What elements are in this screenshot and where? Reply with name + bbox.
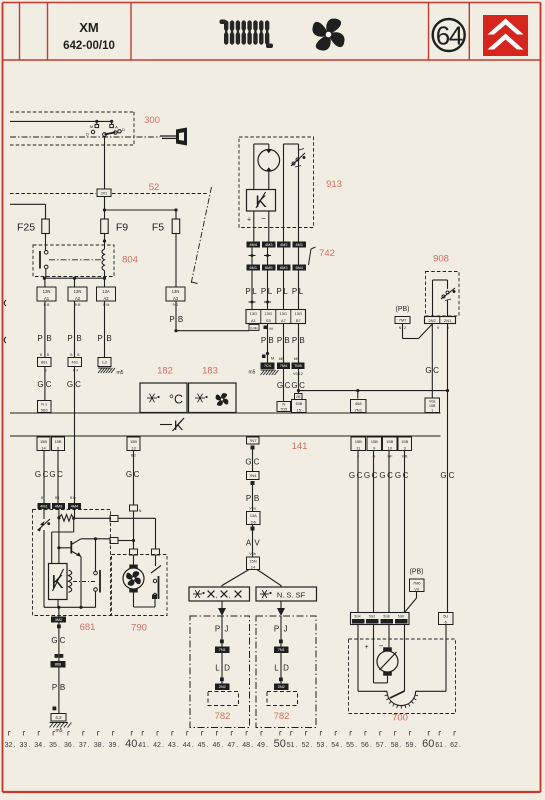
svg-text:F5: F5 [152,222,164,234]
connector 7N7 [247,437,260,444]
svg-text:+: + [364,644,368,651]
svg-text:(PB): (PB) [396,306,410,313]
wire 4M2 to ground [58,623,60,714]
svg-text:.: . [28,742,30,749]
svg-text:C: C [403,471,409,480]
ground connector 12G [98,358,111,367]
svg-text:Rd: Rd [55,496,59,500]
svg-text:201: 201 [101,190,108,195]
svg-text:A7: A7 [281,318,287,323]
connector 868 [51,661,66,668]
wire 861 to 5B3 [44,367,46,401]
svg-text:4M4: 4M4 [250,243,257,247]
connector 7N1 right [274,647,289,654]
svg-text:M: M [271,356,274,361]
svg-text:C: C [46,380,52,389]
svg-text:(PB): (PB) [410,569,424,576]
svg-text:642-00/10: 642-00/10 [63,40,115,52]
fan icon header [305,11,352,58]
svg-text:J: J [225,625,229,634]
connector 742 row 2 [247,265,261,271]
svg-text:G: G [51,636,57,645]
svg-text:.: . [88,742,90,749]
svg-text:908: 908 [433,254,449,265]
svg-text:L: L [274,664,279,673]
svg-text:D: D [283,664,289,673]
svg-text:42: 42 [153,742,161,749]
svg-text:7M4: 7M4 [280,364,287,368]
svg-text:D: D [122,127,125,132]
svg-text:−: − [261,214,266,223]
connector 4M4 [68,503,81,509]
wire 7N4 down [252,485,254,512]
svg-text:55: 55 [346,742,354,749]
svg-text:15: 15 [297,407,302,412]
ignition key [160,135,176,137]
svg-text:700: 700 [392,713,408,724]
connector 5B3 on harness K [38,401,52,413]
svg-text:A2: A2 [103,296,109,301]
svg-text:F9: F9 [116,222,128,234]
rheostat right wire [416,690,446,692]
connector 2N2 right [274,684,289,691]
svg-text:C: C [299,381,305,390]
wire 13N A3 to fan control [175,301,177,331]
connector 861 [38,358,52,367]
svg-text:P: P [97,334,102,343]
relay 804 coil [102,249,105,271]
connector 7M6 V0 [410,579,425,592]
svg-text:B7: B7 [296,318,302,323]
svg-text:60: 60 [422,738,434,750]
rheostat comb [416,690,419,692]
svg-text:2N2: 2N2 [278,685,285,689]
svg-text:15B: 15B [355,439,362,444]
svg-text:B: B [70,353,72,357]
switch wiper bar [105,132,116,134]
ground m5 bottom [50,723,54,728]
emitter wire down [80,557,82,608]
svg-text:.: . [340,742,342,749]
motor 913 [258,150,280,172]
wire 7N7 down [252,450,254,472]
svg-text:33: 33 [19,742,27,749]
fanout wires to relay boxes [222,570,249,588]
svg-text:2N2: 2N2 [428,318,436,323]
driver unit K 681 [49,564,68,600]
svg-text:913: 913 [326,179,342,190]
wire 782 left [221,616,223,684]
wire 782 right [280,616,282,684]
svg-text:2N1: 2N1 [444,318,452,323]
wire pin1 to switch connector [118,517,156,519]
svg-text:41: 41 [138,742,146,749]
svg-text:35: 35 [49,742,57,749]
svg-text:40: 40 [125,738,137,750]
wire column A1 [44,301,46,358]
svg-text:C: C [387,471,393,480]
connector 4M1 [38,503,51,509]
svg-text:.: . [370,742,372,749]
boundary 52 diagonal [191,187,212,284]
relay 804 link [49,259,102,261]
svg-text:13N: 13N [43,289,51,294]
svg-text:7M7: 7M7 [399,318,408,323]
svg-text:61: 61 [435,742,443,749]
inline connector switch [152,549,160,555]
resistor 681 [59,515,74,522]
svg-text:48: 48 [242,742,250,749]
svg-text:868: 868 [55,663,61,667]
svg-text:.: . [103,742,105,749]
svg-text:46: 46 [213,742,221,749]
svg-text:C: C [43,470,49,479]
svg-text:4M3: 4M3 [55,504,62,508]
connector 15B 9 [367,437,382,451]
182 snowflake [147,397,157,399]
svg-text:P: P [276,287,281,296]
svg-text:V: V [254,539,260,548]
svg-text:M: M [269,326,272,331]
svg-text:7N1: 7N1 [219,648,226,652]
svg-text:6M3: 6M3 [280,266,287,270]
svg-text:A1: A1 [251,318,257,323]
svg-text:R 4: R 4 [73,369,78,373]
svg-text:15B: 15B [371,439,378,444]
wire resistor to pin1 [74,517,110,519]
svg-text:468: 468 [355,401,362,406]
svg-text:P: P [277,336,282,345]
svg-text:4M2: 4M2 [280,243,287,247]
connector 468 7N1 [351,400,367,413]
svg-text:9: 9 [437,326,439,330]
svg-text:.: . [162,742,164,749]
connector row 700 [351,613,410,625]
svg-text:m5: m5 [117,370,124,376]
svg-text:G: G [379,471,385,480]
connector 742 row 1 [247,242,261,248]
svg-text:39: 39 [109,742,117,749]
relay contact wire down [95,591,97,607]
svg-text:6M4: 6M4 [296,266,303,270]
svg-text:5G4: 5G4 [354,614,360,618]
connector 15B 8 [52,437,65,451]
svg-text:7N7: 7N7 [249,438,257,443]
mechanical link to key [10,136,160,138]
svg-text:G: G [291,381,297,390]
collector wire to pin2 [81,538,110,540]
svg-text:13G: 13G [250,311,258,316]
svg-text:13G: 13G [265,311,273,316]
svg-text:L: L [283,287,288,296]
wire 2N1 down to resistor 700 [447,324,449,613]
svg-text:59: 59 [406,742,414,749]
wire pin2 to motor wire [118,540,134,542]
wire 5U6 top [447,612,449,614]
svg-text:C: C [75,380,81,389]
svg-text:B: B [76,334,81,343]
relay coil 681 [69,570,72,592]
wire 7M6 diagonal [416,592,418,599]
svg-text:45: 45 [198,742,206,749]
radiator icon [220,20,274,49]
svg-text:B: B [77,353,79,357]
wire 461 through harness to 4M4 [74,367,76,504]
svg-text:C: C [357,471,363,480]
svg-text:44: 44 [183,742,191,749]
fuse rail wire [105,209,177,211]
svg-text:.: . [459,742,461,749]
svg-text:52: 52 [149,182,160,193]
svg-text:C: C [285,381,291,390]
wire column A2 [74,301,76,358]
splice 742 b [264,255,271,257]
svg-text:.: . [355,742,357,749]
svg-text:m5: m5 [249,370,256,376]
svg-text:15B: 15B [401,439,408,444]
ignition switch 300 dashed box [10,111,134,113]
svg-text:,: , [229,593,231,600]
K 681 bottom wire [57,600,59,608]
svg-text:L: L [268,287,273,296]
svg-text:1,2: 1,2 [102,360,108,365]
svg-text:50: 50 [274,738,286,750]
svg-text:C: C [449,471,455,480]
connector 7M7 [395,317,410,324]
connector 7M4 [277,363,290,370]
relay 804 contact [39,251,41,269]
signal wire to 908 drop [299,390,448,392]
svg-text:782: 782 [274,711,290,722]
wire 7M7 to 2N2 [402,324,404,339]
svg-text:B: B [299,336,304,345]
splice 742 a [249,255,256,257]
connector G Mv [249,325,259,331]
harness K upper line [10,412,441,414]
183 snowflake [195,397,205,399]
svg-text:4M4: 4M4 [71,504,78,508]
svg-text:C: C [433,366,439,375]
svg-text:,: , [216,593,218,600]
inline connector motor [130,549,138,555]
svg-text:681: 681 [80,622,96,633]
connector 2N2 2N1 [425,317,456,324]
wires K913 down [253,211,255,242]
fuse F5 [172,219,180,234]
arrow wire left 782 [221,601,223,608]
svg-text:6E: 6E [294,357,299,361]
svg-text:A1: A1 [44,296,50,301]
node 2M [264,326,268,330]
svg-text:13G: 13G [280,311,288,316]
svg-text:7D5: 7D5 [280,407,287,411]
svg-text:B1a: B1a [70,496,76,500]
wire to G Mv box [176,330,249,332]
wire 13A D6 down [252,525,254,527]
connector V0a 15B 1 [425,398,440,413]
svg-text:V0 12: V0 12 [293,372,303,376]
designation box left [189,587,250,601]
svg-text:N: N [139,509,142,513]
svg-text:14: 14 [251,564,256,569]
svg-text:.: . [147,742,149,749]
svg-text:+: + [247,217,251,224]
connector 4M2 [51,617,66,623]
pin 681 to 790 upper [110,516,118,522]
svg-text:G: G [49,470,55,479]
wires 141 row down to 700 [357,451,359,613]
fan unit 790 dashed box [112,555,168,616]
connector N 7D5 [277,402,291,412]
inline connector a [130,505,138,511]
svg-text:G: G [35,470,41,479]
socket dashed left [208,692,239,706]
relay 804 dashed box [33,245,114,277]
wiper 700 [404,625,406,692]
svg-text:300: 300 [144,115,160,126]
svg-text:G: G [277,381,283,390]
svg-text:2N2: 2N2 [219,685,226,689]
wire motor loop [268,144,270,149]
svg-text:B: B [46,334,51,343]
feed wire to F25 [10,203,46,205]
svg-text:B·B: B·B [75,303,81,307]
svg-text:D: D [86,132,89,137]
svg-text:C: C [57,470,63,479]
svg-text:2: 2 [404,326,406,330]
svg-text:15B: 15B [295,401,302,406]
svg-text:G: G [425,366,431,375]
connector 13N A2 [68,287,87,301]
wire 13G S3 to ground 7C4 [267,324,269,363]
svg-text:38: 38 [94,742,102,749]
svg-text:.: . [400,742,402,749]
motor 790 bottom wire [133,593,135,608]
svg-text:52: 52 [302,742,310,749]
svg-text:°C: °C [169,393,183,407]
svg-text:V0: V0 [414,586,420,591]
svg-text:G: G [126,470,132,479]
connector 7N4 [247,472,260,480]
svg-text:.: . [414,742,416,749]
svg-text:B: B [40,353,42,357]
svg-text:F25: F25 [17,222,35,234]
supply wire into switch [10,120,112,122]
boundary 52 dashed line [10,193,96,195]
loop resistor to K input [73,518,75,532]
svg-text:G: G [349,471,355,480]
wire from 201 to fuse rail [104,197,106,220]
svg-text:58: 58 [391,742,399,749]
svg-text:G: G [37,380,43,389]
svg-text:13: 13 [131,445,136,450]
svg-text:.: . [236,742,238,749]
connector 15B 15 [292,400,307,413]
svg-text:15B: 15B [54,439,61,444]
svg-text:B: B [47,353,49,357]
svg-text:.: . [73,742,75,749]
svg-text:.: . [43,742,45,749]
svg-text:7N1: 7N1 [278,648,285,652]
svg-text:804: 804 [122,255,138,266]
svg-text:.: . [311,742,313,749]
svg-text:6M5: 6M5 [265,266,272,270]
908 internal loop [432,280,434,317]
wire drop to 468 7N1 [357,391,359,399]
svg-text:G: G [245,458,251,467]
wire 4M4 to resistor node [74,509,76,518]
svg-text:54: 54 [331,742,339,749]
svg-text:G: G [440,471,446,480]
wire F9 to relay coil [104,234,106,250]
arrow wire right 782 [280,601,282,608]
svg-text:.: . [207,742,209,749]
svg-text:7M6: 7M6 [413,580,422,585]
wire 4M3 down [58,509,60,564]
svg-text:182: 182 [157,366,173,377]
svg-text:15B: 15B [386,439,393,444]
harness K label [160,424,172,426]
svg-text:32: 32 [5,742,13,749]
wire from switch down to connector 201 [104,136,106,189]
svg-text:62: 62 [450,742,458,749]
svg-text:L: L [299,287,304,296]
svg-text:861: 861 [41,360,48,365]
svg-text:P: P [261,336,266,345]
wires 15B14 15B8 down [43,451,45,504]
motor 700 [357,625,359,692]
svg-text:53: 53 [316,742,324,749]
svg-text:4M1: 4M1 [296,243,303,247]
svg-text:L: L [252,287,257,296]
connector 13A A2 [97,287,116,301]
svg-text:P: P [292,336,297,345]
wire column A2b to ground [104,301,106,358]
wire rail to A1 [44,278,46,287]
svg-text:.: . [266,742,268,749]
svg-text:2B: 2B [296,395,301,399]
svg-text:4.2: 4.2 [55,715,62,720]
svg-text:.: . [177,742,179,749]
connector 13A D6 [247,512,261,525]
svg-text:.: . [58,742,60,749]
pressure switch 908 dashed box [426,272,460,317]
svg-text:L: L [215,664,220,673]
continuation mark a [4,300,6,306]
connector 13G row [246,310,306,324]
splice 742 d [264,301,271,303]
pin 681 to 790 lower [110,538,118,544]
svg-text:782: 782 [215,711,231,722]
sensor 183 box [189,383,237,413]
svg-text:6M1: 6M1 [250,266,257,270]
svg-text:13N: 13N [172,289,180,294]
splice 742 c [249,301,256,303]
svg-text:D6: D6 [251,519,257,524]
svg-text:5U: 5U [443,614,448,619]
wire 13G A7 down [283,324,285,402]
svg-text:5G8: 5G8 [383,614,389,618]
svg-text:C: C [254,458,260,467]
relay box 782 left [190,616,250,728]
bottom rail 681 [44,606,96,608]
svg-text:M: M [90,124,93,129]
svg-text:J: J [284,625,288,634]
rheostat 700 [358,690,387,692]
connector 13N A3 [166,287,185,301]
fan motor 790 [133,555,135,565]
svg-text:7M5: 7M5 [294,364,301,368]
